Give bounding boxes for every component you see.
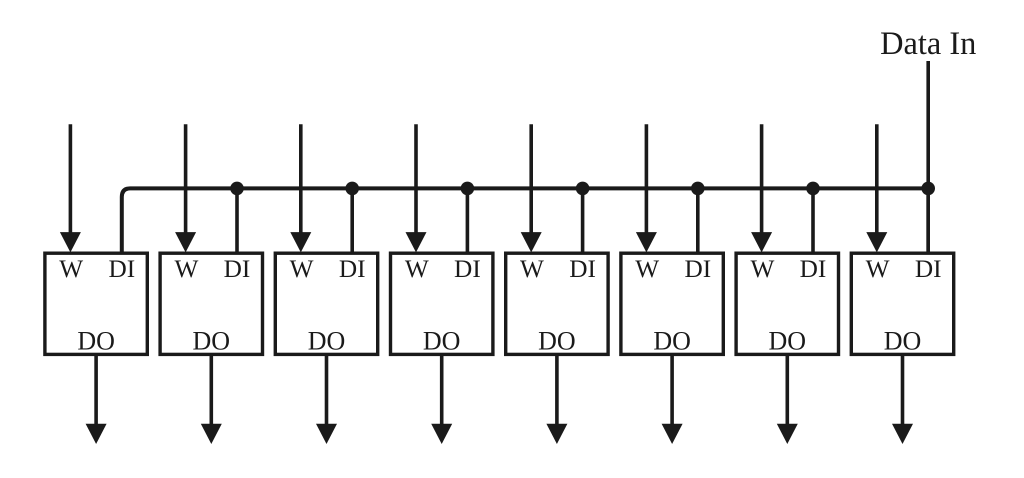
wire DI4 drop from bus	[466, 188, 470, 253]
svg-text:W: W	[290, 255, 314, 283]
junction dot at DI2	[230, 182, 244, 196]
wire W5 input arrow	[521, 124, 542, 252]
wire DI6 drop from bus	[696, 188, 700, 253]
svg-text:W: W	[405, 255, 429, 283]
svg-text:DO: DO	[538, 326, 576, 355]
wire DO3 output arrow	[316, 354, 337, 444]
svg-text:DO: DO	[423, 326, 461, 355]
junction dot at DI8	[921, 182, 935, 196]
memory cell 1 (box)	[45, 253, 147, 355]
svg-text:Data In: Data In	[880, 26, 976, 62]
svg-text:W: W	[635, 255, 659, 283]
svg-text:W: W	[59, 255, 83, 283]
wire Data In vertical	[926, 61, 930, 253]
wire DO6 output arrow	[662, 354, 683, 444]
svg-text:DI: DI	[800, 255, 827, 283]
wire DO7 output arrow	[777, 354, 798, 444]
svg-text:DO: DO	[769, 326, 807, 355]
memory cell 7 (box)	[736, 253, 838, 355]
wire W7 input arrow	[751, 124, 772, 252]
svg-text:DI: DI	[569, 255, 596, 283]
svg-text:DO: DO	[653, 326, 691, 355]
svg-text:DO: DO	[77, 326, 115, 355]
svg-text:W: W	[750, 255, 774, 283]
junction dot at DI5	[576, 182, 590, 196]
svg-text:W: W	[174, 255, 198, 283]
wire DO1 output arrow	[86, 354, 107, 444]
junction dot at DI7	[806, 182, 820, 196]
wire DO8 output arrow	[892, 354, 913, 444]
svg-text:DO: DO	[884, 326, 922, 355]
memory cell 8 (box)	[851, 253, 953, 355]
svg-text:DI: DI	[224, 255, 251, 283]
svg-text:W: W	[866, 255, 890, 283]
memory cell 3 (box)	[275, 253, 377, 355]
wire DI5 drop from bus	[581, 188, 585, 253]
wire W8 input arrow	[866, 124, 887, 252]
svg-text:DI: DI	[454, 255, 481, 283]
svg-text:DI: DI	[915, 255, 942, 283]
memory cell 6 (box)	[621, 253, 723, 355]
wire W6 input arrow	[636, 124, 657, 252]
svg-text:DO: DO	[193, 326, 231, 355]
wire DO4 output arrow	[431, 354, 452, 444]
junction dot at DI6	[691, 182, 705, 196]
wire W3 input arrow	[290, 124, 311, 252]
svg-text:DI: DI	[339, 255, 366, 283]
wire DI7 drop from bus	[811, 188, 815, 253]
wire DO2 output arrow	[201, 354, 222, 444]
memory cell 4 (box)	[391, 253, 493, 355]
junction dot at DI3	[345, 182, 359, 196]
wire DI bus (horizontal with rounded corner into cell 1)	[122, 188, 928, 253]
memory cell 5 (box)	[506, 253, 608, 355]
memory cell 2 (box)	[160, 253, 262, 355]
svg-text:W: W	[520, 255, 544, 283]
wire W4 input arrow	[406, 124, 427, 252]
svg-text:DI: DI	[108, 255, 135, 283]
wire DO5 output arrow	[546, 354, 567, 444]
junction dot at DI4	[461, 182, 475, 196]
svg-text:DI: DI	[684, 255, 711, 283]
svg-text:DO: DO	[308, 326, 346, 355]
wire DI3 drop from bus	[350, 188, 354, 253]
wire DI8 drop from bus	[926, 188, 930, 253]
wire W2 input arrow	[175, 124, 196, 252]
wire DI2 drop from bus	[235, 188, 239, 253]
wire W1 input arrow	[60, 124, 81, 252]
